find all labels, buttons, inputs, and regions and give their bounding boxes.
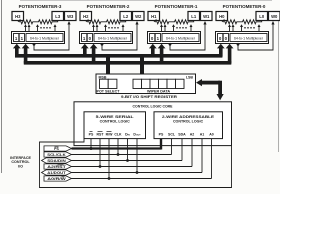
svg-text:A0: A0 bbox=[209, 132, 214, 136]
svg-text:RST: RST bbox=[97, 132, 105, 136]
interface port flag SDA/DIN bbox=[42, 158, 72, 163]
svg-text:H0: H0 bbox=[219, 14, 225, 19]
svg-text:A2/RST: A2/RST bbox=[47, 165, 67, 169]
svg-text:H3: H3 bbox=[15, 14, 21, 19]
pot-select bus (upper) bbox=[15, 54, 222, 58]
tap arrows pot 2 bbox=[92, 24, 125, 31]
64-to-1 multiplexer box pot 0 bbox=[230, 34, 267, 42]
resistor element pot 0 bbox=[222, 20, 262, 24]
svg-text:I/O: I/O bbox=[18, 165, 23, 169]
scan edge line left bbox=[1, 0, 3, 173]
terminal W3 bbox=[65, 12, 77, 21]
svg-text:64-to-1 Multiplexer: 64-to-1 Multiplexer bbox=[30, 37, 60, 41]
svg-text:L3: L3 bbox=[55, 14, 61, 19]
svg-text:W0: W0 bbox=[271, 14, 278, 19]
svg-text:SDA/DIN: SDA/DIN bbox=[47, 159, 66, 163]
multiplexer assembly box pot 2 bbox=[80, 32, 133, 44]
interface port flag PS bbox=[44, 146, 72, 151]
wiper-data bus arrow into multiplexer pot 0 bbox=[226, 44, 234, 64]
multiplexer assembly box pot 0 bbox=[216, 32, 269, 44]
multiplexer assembly box pot 3 bbox=[12, 32, 65, 44]
control logic core box bbox=[74, 102, 232, 146]
svg-text:A0/R/W: A0/R/W bbox=[47, 177, 67, 181]
svg-text:PS: PS bbox=[159, 132, 164, 136]
multiplexer assembly box pot 1 bbox=[148, 32, 201, 44]
terminal H0 bbox=[216, 12, 228, 21]
wiper-data bus drop to shift register bbox=[140, 54, 144, 75]
terminal H2 bbox=[80, 12, 92, 21]
2-wire PS pin thick drop bbox=[160, 139, 162, 150]
wiper output wire pot 1 to W1 bbox=[169, 21, 207, 50]
wiper-data bus arrow into multiplexer pot 1 bbox=[158, 44, 166, 64]
64-to-1 multiplexer box pot 2 bbox=[94, 34, 131, 42]
svg-text:LSB: LSB bbox=[186, 75, 194, 79]
svg-text:CONTROL: CONTROL bbox=[11, 160, 30, 164]
serial data elbow arrow register/core bbox=[196, 79, 224, 100]
wiper output wire pot 3 to W3 bbox=[33, 21, 71, 50]
address latch bit cells pot 3 value 11 bbox=[14, 34, 25, 42]
wiper output wire pot 0 to W0 bbox=[237, 21, 275, 50]
svg-text:CONTROL LOGIC: CONTROL LOGIC bbox=[100, 120, 130, 124]
pot-select bus arrow into latch pot 2 bbox=[81, 44, 89, 57]
terminal L0 bbox=[256, 12, 268, 21]
address latch bit cells pot 0 value 00 bbox=[218, 34, 229, 42]
interface port flag A0/R/W bbox=[44, 176, 72, 181]
svg-text:SDA: SDA bbox=[178, 132, 186, 136]
WIPER DATA label bbox=[147, 89, 171, 93]
tap arrows pot 3 bbox=[24, 24, 57, 31]
pot-select bus arrow into latch pot 3 bbox=[13, 44, 21, 57]
wiper-data bus arrow into multiplexer pot 3 bbox=[22, 44, 30, 64]
wire A2/RST net row bbox=[72, 166, 193, 168]
svg-text:64-to-1 Multiplexer: 64-to-1 Multiplexer bbox=[234, 37, 264, 41]
svg-text:POTENTIOMETER-3: POTENTIOMETER-3 bbox=[19, 4, 62, 9]
address latch bit cells pot 1 value 01 bbox=[150, 34, 161, 42]
potentiometer 0 label bbox=[223, 4, 266, 9]
64-to-1 multiplexer box pot 1 bbox=[162, 34, 199, 42]
svg-text:CLK: CLK bbox=[114, 132, 122, 136]
svg-text:PS: PS bbox=[89, 132, 94, 136]
9-bit I/O shift register box bbox=[96, 74, 196, 94]
svg-text:POTENTIOMETER-1: POTENTIOMETER-1 bbox=[155, 4, 198, 9]
junction dots on serial pin nets bbox=[90, 147, 139, 180]
svg-text:MSB: MSB bbox=[99, 75, 107, 79]
2-wire pin drop wires bbox=[172, 139, 212, 179]
svg-text:W3: W3 bbox=[67, 14, 74, 19]
LSB label bbox=[186, 75, 194, 79]
wire SCL/CLK net row bbox=[72, 154, 172, 156]
resistor element pot 2 bbox=[86, 20, 126, 24]
svg-text:INTERFACE: INTERFACE bbox=[10, 156, 31, 160]
tap arrows pot 1 bbox=[160, 24, 193, 31]
MSB label bbox=[99, 75, 107, 79]
terminal W0 bbox=[269, 12, 281, 21]
svg-text:CONTROL LOGIC: CONTROL LOGIC bbox=[173, 120, 203, 124]
serial pin drop wires bbox=[91, 139, 137, 179]
resistor element pot 3 bbox=[18, 20, 58, 24]
svg-text:H1: H1 bbox=[151, 14, 157, 19]
terminal L3 bbox=[52, 12, 64, 21]
svg-text:SCL: SCL bbox=[168, 132, 176, 136]
64-to-1 multiplexer box pot 3 bbox=[26, 34, 63, 42]
resistor element pot 1 bbox=[154, 20, 194, 24]
svg-text:9-BIT I/O SHIFT REGISTER: 9-BIT I/O SHIFT REGISTER bbox=[121, 95, 177, 99]
svg-text:POTENTIOMETER-0: POTENTIOMETER-0 bbox=[223, 4, 266, 9]
wiper data cells bbox=[133, 79, 184, 88]
svg-text:L0: L0 bbox=[259, 14, 265, 19]
2-wire addressable control logic box U-2wire bbox=[154, 112, 223, 139]
terminal L2 bbox=[120, 12, 132, 21]
scan edge line top bbox=[20, 0, 272, 1]
wiper output wire pot 2 to W2 bbox=[101, 21, 139, 50]
svg-text:W1: W1 bbox=[203, 14, 210, 19]
terminal H3 bbox=[12, 12, 24, 21]
terminal L1 bbox=[188, 12, 200, 21]
interface port flag A1/DOUT bbox=[42, 170, 72, 175]
tap arrows pot 0 bbox=[228, 24, 261, 31]
svg-text:PS: PS bbox=[54, 147, 59, 151]
serial pins PS RST R/W CLK DIN DOUT bbox=[89, 131, 142, 136]
address latch bit cells pot 2 value 10 bbox=[82, 34, 93, 42]
wiper-data bus arrow into multiplexer pot 2 bbox=[90, 44, 98, 64]
wire A0/RW net row bbox=[72, 178, 212, 180]
svg-text:SCL/CLK: SCL/CLK bbox=[47, 153, 66, 157]
svg-text:A1/DOUT: A1/DOUT bbox=[47, 171, 67, 175]
svg-text:L1: L1 bbox=[191, 14, 197, 19]
potentiometer 2 label bbox=[87, 4, 130, 9]
svg-text:WIPER DATA: WIPER DATA bbox=[147, 89, 171, 93]
potentiometer 1 label bbox=[155, 4, 198, 9]
pot select cells bbox=[100, 79, 117, 88]
wire A1/DOUT net row bbox=[72, 172, 203, 174]
svg-text:A1: A1 bbox=[200, 132, 205, 136]
POT SELECT label bbox=[97, 89, 121, 93]
scan edge line right bbox=[277, 14, 279, 152]
INTERFACE CONTROL I/O label bbox=[10, 156, 31, 169]
svg-text:R/W: R/W bbox=[106, 132, 114, 136]
svg-text:5-WIRE SERIAL: 5-WIRE SERIAL bbox=[96, 114, 135, 119]
5-wire serial control logic box U-serial bbox=[84, 112, 146, 139]
svg-text:CONTROL LOGIC CORE: CONTROL LOGIC CORE bbox=[133, 103, 173, 108]
wire SDA/DIN net row bbox=[72, 160, 183, 162]
wire PS net row bbox=[72, 147, 162, 149]
pot-select bus arrow into latch pot 1 bbox=[149, 44, 157, 57]
terminal H1 bbox=[148, 12, 160, 21]
svg-text:L2: L2 bbox=[123, 14, 129, 19]
svg-text:64-to-1 Multiplexer: 64-to-1 Multiplexer bbox=[166, 37, 196, 41]
terminal W2 bbox=[133, 12, 145, 21]
interface port flag A2/RST bbox=[44, 164, 72, 169]
2-wire pins PS SCL SDA A2 A1 A0 bbox=[159, 132, 214, 136]
interface port flag SCL/CLK bbox=[44, 152, 72, 157]
9-BIT I/O SHIFT REGISTER caption bbox=[121, 95, 177, 99]
svg-text:A2: A2 bbox=[190, 132, 195, 136]
pot-select bus arrow into latch pot 0 bbox=[217, 44, 225, 57]
pot-select bus drop to shift register bbox=[106, 54, 110, 75]
svg-text:2-WIRE ADDRESSABLE: 2-WIRE ADDRESSABLE bbox=[162, 114, 214, 119]
svg-text:64-to-1 Multiplexer: 64-to-1 Multiplexer bbox=[98, 37, 128, 41]
svg-text:POTENTIOMETER-2: POTENTIOMETER-2 bbox=[87, 4, 130, 9]
potentiometer 3 label bbox=[19, 4, 62, 9]
svg-text:H2: H2 bbox=[83, 14, 89, 19]
svg-text:W2: W2 bbox=[135, 14, 142, 19]
wiper-data bus (lower) bbox=[24, 61, 232, 65]
CONTROL LOGIC CORE title bbox=[133, 103, 173, 108]
svg-text:POT SELECT: POT SELECT bbox=[97, 89, 121, 93]
terminal W1 bbox=[201, 12, 213, 21]
protocol select loop wire bbox=[40, 139, 232, 188]
